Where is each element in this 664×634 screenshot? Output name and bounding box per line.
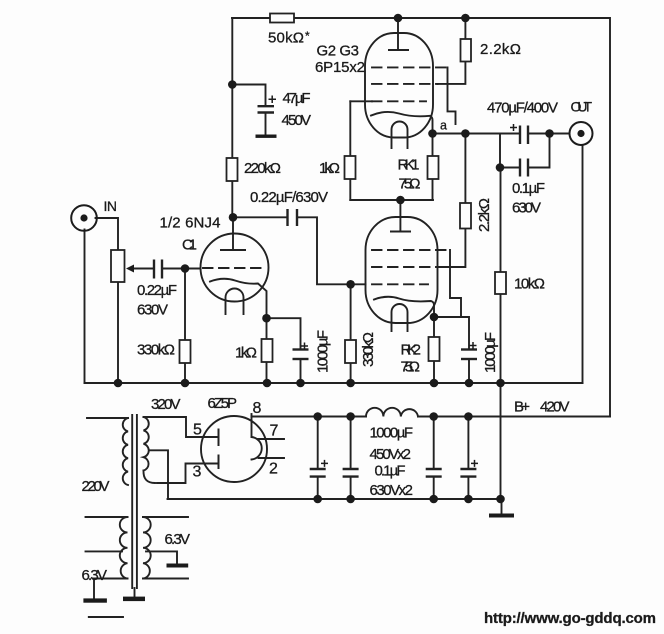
svg-text:5: 5 — [193, 422, 202, 439]
svg-text:RK1: RK1 — [398, 157, 420, 174]
svg-text:1kΩ: 1kΩ — [235, 345, 257, 362]
svg-text:330kΩ: 330kΩ — [360, 332, 377, 367]
svg-text:6P15x2: 6P15x2 — [315, 59, 365, 76]
svg-text:1/2 6NJ4: 1/2 6NJ4 — [160, 215, 221, 232]
svg-text:3: 3 — [193, 464, 202, 481]
svg-text:1kΩ: 1kΩ — [319, 160, 340, 177]
svg-text:6.3V: 6.3V — [82, 567, 108, 584]
svg-text:75Ω: 75Ω — [399, 176, 421, 193]
svg-text:1000µF: 1000µF — [482, 332, 499, 373]
svg-text:75Ω: 75Ω — [401, 359, 421, 376]
svg-text:RK2: RK2 — [401, 342, 422, 359]
svg-text:0.1µF: 0.1µF — [375, 463, 406, 480]
svg-text:IN: IN — [104, 198, 118, 214]
svg-text:0.22µF: 0.22µF — [137, 282, 177, 299]
svg-text:330kΩ: 330kΩ — [137, 342, 175, 359]
svg-text:47µF: 47µF — [283, 90, 311, 107]
svg-text:1000µF: 1000µF — [315, 330, 332, 373]
svg-text:2: 2 — [269, 461, 278, 478]
svg-text:a: a — [440, 119, 447, 133]
svg-text:50kΩ: 50kΩ — [268, 30, 304, 47]
svg-text:B+: B+ — [514, 399, 530, 416]
svg-text:220kΩ: 220kΩ — [244, 160, 281, 177]
svg-text:1000µF: 1000µF — [370, 425, 414, 442]
svg-text:http://www.go-gddq.com: http://www.go-gddq.com — [484, 610, 656, 627]
svg-text:320V: 320V — [151, 396, 181, 413]
svg-text:630V: 630V — [137, 302, 168, 319]
svg-text:10kΩ: 10kΩ — [514, 276, 545, 293]
svg-text:G2 G3: G2 G3 — [317, 43, 360, 60]
svg-text:2.2kΩ: 2.2kΩ — [476, 198, 493, 232]
svg-text:0.22µF/630V: 0.22µF/630V — [250, 189, 328, 206]
svg-text:6Z5P: 6Z5P — [208, 395, 238, 412]
svg-text:630Vx2: 630Vx2 — [370, 482, 414, 499]
svg-text:6.3V: 6.3V — [165, 531, 191, 548]
svg-text:0.1µF: 0.1µF — [512, 180, 545, 197]
svg-text:7: 7 — [270, 423, 279, 440]
svg-text:220V: 220V — [82, 478, 110, 495]
svg-text:420V: 420V — [540, 399, 570, 416]
svg-text:630V: 630V — [512, 200, 541, 217]
svg-text:*: * — [305, 29, 310, 43]
svg-text:450Vx2: 450Vx2 — [370, 446, 412, 463]
svg-text:OUT: OUT — [571, 99, 593, 115]
svg-text:8: 8 — [253, 400, 262, 417]
svg-text:470µF/400V: 470µF/400V — [487, 100, 558, 117]
svg-text:C1: C1 — [182, 237, 197, 254]
svg-text:450V: 450V — [282, 112, 312, 129]
svg-text:2.2kΩ: 2.2kΩ — [480, 41, 521, 58]
